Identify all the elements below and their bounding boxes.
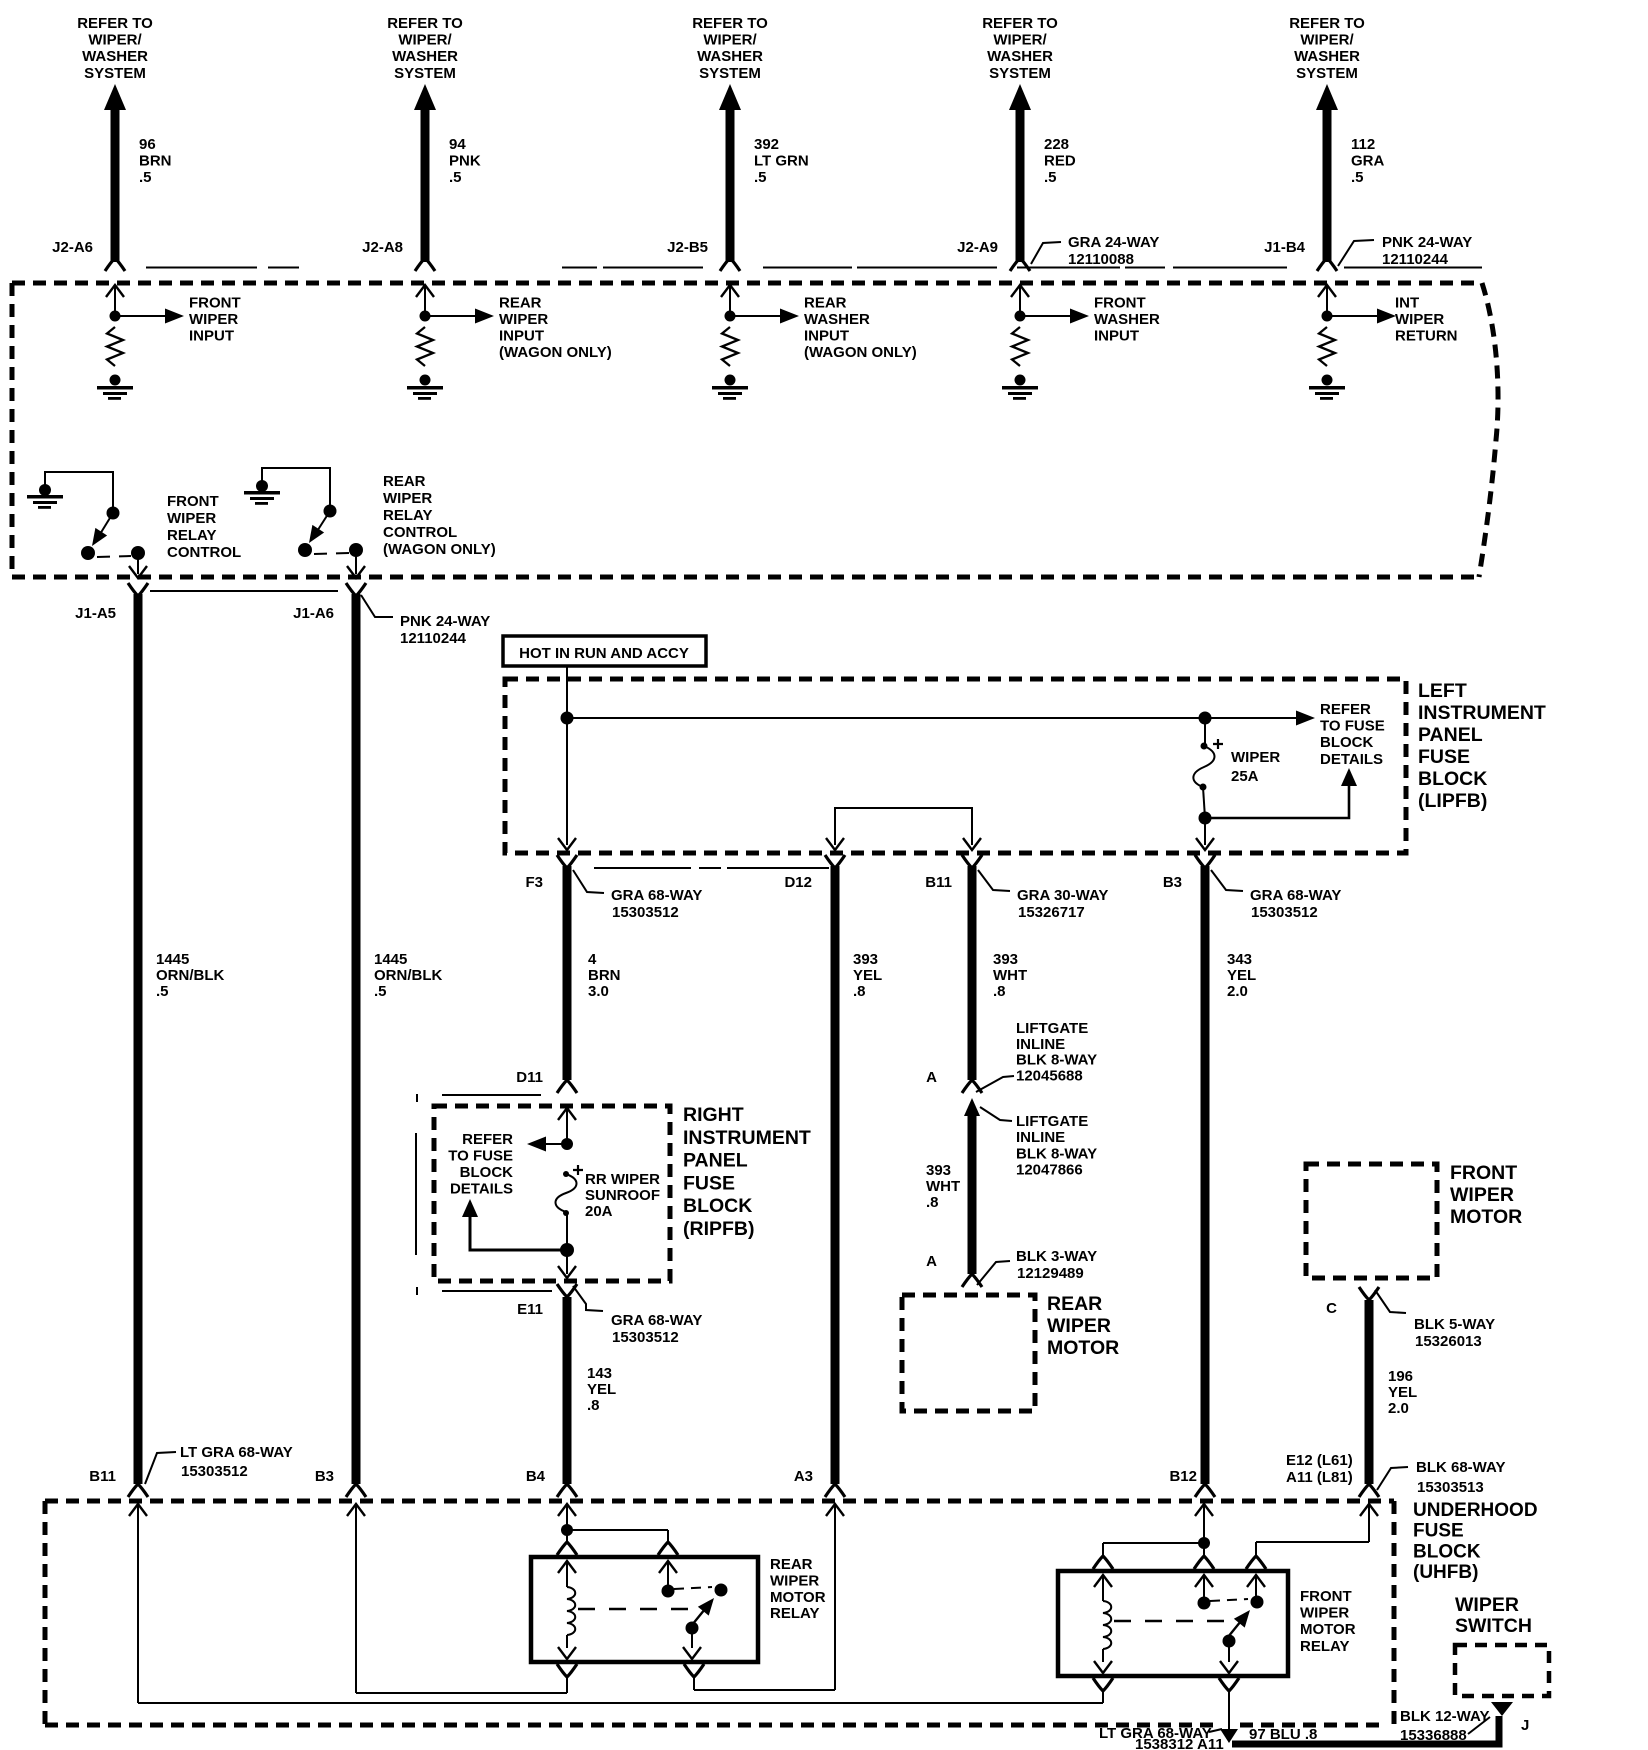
svg-text:SYSTEM: SYSTEM [84,65,146,82]
svg-text:BLOCK: BLOCK [1413,1541,1481,1562]
svg-text:LT GRN: LT GRN [754,153,809,170]
svg-text:4: 4 [588,951,597,968]
svg-text:PNK 24-WAY: PNK 24-WAY [1382,234,1472,251]
svg-text:2.0: 2.0 [1227,983,1248,1000]
svg-text:WIPER/: WIPER/ [993,32,1047,49]
svg-text:WHT: WHT [926,1178,960,1195]
svg-text:.8: .8 [926,1194,939,1211]
svg-text:INPUT: INPUT [189,328,234,345]
svg-text:A3: A3 [794,1468,813,1485]
svg-text:LT GRA 68-WAY: LT GRA 68-WAY [180,1444,293,1461]
svg-text:FRONT: FRONT [167,493,219,510]
svg-text:J1-B4: J1-B4 [1264,239,1306,256]
svg-text:WASHER: WASHER [82,48,148,65]
svg-text:INSTRUMENT: INSTRUMENT [683,1127,811,1149]
svg-text:12110244: 12110244 [1382,251,1449,268]
svg-text:WASHER: WASHER [804,311,870,328]
svg-text:INPUT: INPUT [804,328,849,345]
svg-text:25A: 25A [1231,768,1259,785]
svg-text:INLINE: INLINE [1016,1129,1065,1146]
svg-text:J2-B5: J2-B5 [667,239,708,256]
svg-text:WIPER: WIPER [1455,1594,1519,1616]
svg-text:393: 393 [993,951,1018,968]
svg-text:393: 393 [853,951,878,968]
svg-text:.5: .5 [374,983,387,1000]
svg-text:12047866: 12047866 [1016,1162,1083,1179]
svg-text:MOTOR: MOTOR [1450,1206,1522,1228]
svg-text:393: 393 [926,1162,951,1179]
svg-text:.8: .8 [993,983,1006,1000]
svg-text:B11: B11 [925,874,952,891]
svg-text:REFER TO: REFER TO [982,15,1058,32]
svg-text:MOTOR: MOTOR [1300,1621,1356,1638]
svg-text:GRA 30-WAY: GRA 30-WAY [1017,887,1108,904]
svg-text:BRN: BRN [588,967,621,984]
svg-text:MOTOR: MOTOR [1047,1337,1119,1359]
svg-text:WIPER: WIPER [383,490,432,507]
svg-text:(WAGON ONLY): (WAGON ONLY) [804,344,917,361]
svg-text:96: 96 [139,136,156,153]
svg-text:WIPER/: WIPER/ [703,32,757,49]
svg-text:FRONT: FRONT [1094,295,1146,312]
svg-text:228: 228 [1044,136,1069,153]
svg-text:SYSTEM: SYSTEM [989,65,1051,82]
svg-text:FRONT: FRONT [189,295,241,312]
svg-text:REAR: REAR [1047,1293,1102,1315]
svg-text:(UHFB): (UHFB) [1413,1562,1478,1583]
svg-text:WIPER: WIPER [1300,1605,1349,1622]
svg-text:RR WIPER: RR WIPER [585,1171,660,1188]
svg-text:B4: B4 [526,1468,546,1485]
svg-text:TO FUSE: TO FUSE [1320,718,1385,735]
svg-text:BLK 5-WAY: BLK 5-WAY [1414,1316,1495,1333]
svg-text:WIPER/: WIPER/ [88,32,142,49]
svg-text:WASHER: WASHER [1094,311,1160,328]
svg-text:(WAGON ONLY): (WAGON ONLY) [383,541,496,558]
svg-text:INPUT: INPUT [499,328,544,345]
svg-text:WASHER: WASHER [987,48,1053,65]
svg-text:INT: INT [1395,295,1419,312]
svg-text:.5: .5 [449,169,462,186]
svg-text:REFER TO: REFER TO [387,15,463,32]
svg-text:BLK 3-WAY: BLK 3-WAY [1016,1248,1097,1265]
svg-text:15303513: 15303513 [1417,1479,1484,1496]
svg-text:A: A [926,1069,937,1086]
svg-text:RELAY: RELAY [770,1605,819,1622]
svg-text:.5: .5 [156,983,169,1000]
svg-text:J2-A6: J2-A6 [52,239,93,256]
svg-text:REFER TO: REFER TO [1289,15,1365,32]
svg-text:BLOCK: BLOCK [460,1164,513,1181]
svg-text:J1-A5: J1-A5 [75,605,116,622]
svg-text:WIPER: WIPER [1231,749,1280,766]
svg-text:PANEL: PANEL [683,1150,748,1172]
svg-text:REAR: REAR [770,1556,813,1573]
svg-text:YEL: YEL [853,967,882,984]
svg-text:LIFTGATE: LIFTGATE [1016,1020,1088,1037]
svg-text:D12: D12 [784,874,812,891]
svg-text:INSTRUMENT: INSTRUMENT [1418,702,1546,724]
svg-text:B11: B11 [89,1468,116,1485]
svg-text:J1-A6: J1-A6 [293,605,334,622]
svg-text:BLOCK: BLOCK [1320,734,1373,751]
svg-text:BLOCK: BLOCK [1418,768,1487,790]
svg-text:3.0: 3.0 [588,983,609,1000]
svg-text:A11 (L81): A11 (L81) [1286,1469,1353,1486]
svg-text:FRONT: FRONT [1300,1588,1352,1605]
svg-text:REAR: REAR [383,473,426,490]
svg-text:343: 343 [1227,951,1252,968]
svg-text:YEL: YEL [1388,1384,1417,1401]
svg-text:HOT IN RUN AND ACCY: HOT IN RUN AND ACCY [519,645,689,662]
svg-text:15326717: 15326717 [1018,904,1085,921]
svg-text:FUSE: FUSE [1418,746,1470,768]
svg-text:J2-A9: J2-A9 [957,239,998,256]
svg-text:C: C [1326,1300,1337,1317]
svg-text:(RIPFB): (RIPFB) [683,1218,755,1240]
svg-text:392: 392 [754,136,779,153]
svg-text:WIPER/: WIPER/ [398,32,452,49]
svg-text:B3: B3 [315,1468,334,1485]
svg-text:BLOCK: BLOCK [683,1195,752,1217]
svg-text:112: 112 [1351,136,1375,153]
svg-text:20A: 20A [585,1203,613,1220]
svg-text:94: 94 [449,136,466,153]
svg-text:BLK 8-WAY: BLK 8-WAY [1016,1052,1097,1069]
svg-text:WASHER: WASHER [1294,48,1360,65]
svg-text:YEL: YEL [1227,967,1256,984]
svg-text:WIPER: WIPER [1450,1184,1514,1206]
svg-text:FRONT: FRONT [1450,1162,1517,1184]
svg-text:15303512: 15303512 [181,1463,248,1480]
svg-text:A: A [926,1253,937,1270]
svg-text:SYSTEM: SYSTEM [394,65,456,82]
svg-text:YEL: YEL [587,1381,616,1398]
svg-text:GRA: GRA [1351,153,1385,170]
svg-text:15303512: 15303512 [1251,904,1318,921]
svg-text:E11: E11 [517,1301,543,1318]
svg-text:.8: .8 [587,1397,600,1414]
svg-text:.8: .8 [853,983,866,1000]
svg-text:RIGHT: RIGHT [683,1104,744,1126]
svg-text:SUNROOF: SUNROOF [585,1187,660,1204]
svg-text:INLINE: INLINE [1016,1036,1065,1053]
svg-text:(WAGON ONLY): (WAGON ONLY) [499,344,612,361]
svg-text:WIPER: WIPER [499,311,548,328]
svg-text:REAR: REAR [499,295,542,312]
svg-text:143: 143 [587,1365,612,1382]
svg-text:12045688: 12045688 [1016,1067,1083,1084]
svg-text:FUSE: FUSE [1413,1521,1464,1542]
svg-text:SYSTEM: SYSTEM [699,65,761,82]
svg-text:WIPER: WIPER [167,510,216,527]
svg-text:RED: RED [1044,153,1076,170]
svg-text:MOTOR: MOTOR [770,1589,826,1606]
svg-text:.5: .5 [139,169,152,186]
svg-text:12110244: 12110244 [400,630,467,647]
svg-text:15336888: 15336888 [1400,1727,1467,1744]
svg-text:CONTROL: CONTROL [383,524,457,541]
svg-text:BRN: BRN [139,153,172,170]
svg-text:15303512: 15303512 [612,904,679,921]
svg-text:1445: 1445 [374,951,407,968]
svg-text:BLK 12-WAY: BLK 12-WAY [1400,1708,1489,1725]
svg-text:WIPER: WIPER [1395,311,1444,328]
svg-text:1538312 A11: 1538312 A11 [1135,1736,1224,1750]
svg-text:(LIPFB): (LIPFB) [1418,790,1487,812]
svg-text:BLK 8-WAY: BLK 8-WAY [1016,1145,1097,1162]
svg-text:.5: .5 [1351,169,1364,186]
svg-text:RELAY: RELAY [1300,1638,1349,1655]
svg-text:SWITCH: SWITCH [1455,1615,1532,1637]
svg-text:UNDERHOOD: UNDERHOOD [1413,1500,1538,1521]
svg-text:12110088: 12110088 [1068,251,1134,268]
svg-text:DETAILS: DETAILS [1320,751,1383,768]
svg-text:B12: B12 [1169,1468,1197,1485]
svg-text:LIFTGATE: LIFTGATE [1016,1113,1088,1130]
svg-text:RELAY: RELAY [383,507,432,524]
svg-text:GRA 68-WAY: GRA 68-WAY [611,887,702,904]
svg-text:LEFT: LEFT [1418,680,1467,702]
svg-text:PANEL: PANEL [1418,724,1483,746]
svg-text:REAR: REAR [804,295,847,312]
svg-text:REFER: REFER [1320,701,1371,718]
svg-text:TO FUSE: TO FUSE [448,1148,513,1165]
svg-text:D11: D11 [516,1069,543,1086]
svg-text:WASHER: WASHER [697,48,763,65]
svg-text:FUSE: FUSE [683,1172,735,1194]
svg-text:PNK: PNK [449,153,481,170]
svg-text:DETAILS: DETAILS [450,1181,513,1198]
svg-text:12129489: 12129489 [1017,1265,1084,1282]
svg-text:97 BLU .8: 97 BLU .8 [1249,1726,1317,1743]
svg-text:B3: B3 [1163,874,1182,891]
svg-text:REFER TO: REFER TO [77,15,153,32]
svg-text:J2-A8: J2-A8 [362,239,403,256]
svg-text:RETURN: RETURN [1395,328,1458,345]
svg-text:.5: .5 [754,169,767,186]
svg-text:F3: F3 [525,874,543,891]
svg-text:WIPER/: WIPER/ [1300,32,1354,49]
svg-text:196: 196 [1388,1368,1413,1385]
svg-text:RELAY: RELAY [167,527,216,544]
svg-text:WIPER: WIPER [1047,1315,1111,1337]
svg-text:J: J [1521,1717,1529,1734]
svg-text:GRA 24-WAY: GRA 24-WAY [1068,234,1159,251]
svg-text:1445: 1445 [156,951,189,968]
svg-text:.5: .5 [1044,169,1057,186]
svg-text:2.0: 2.0 [1388,1400,1409,1417]
svg-text:INPUT: INPUT [1094,328,1139,345]
svg-text:GRA 68-WAY: GRA 68-WAY [611,1312,702,1329]
svg-text:REFER: REFER [462,1131,513,1148]
svg-text:ORN/BLK: ORN/BLK [156,967,224,984]
svg-text:15303512: 15303512 [612,1329,679,1346]
svg-text:PNK 24-WAY: PNK 24-WAY [400,613,490,630]
svg-text:E12 (L61): E12 (L61) [1286,1452,1353,1469]
svg-text:WHT: WHT [993,967,1027,984]
svg-text:WIPER: WIPER [189,311,238,328]
svg-text:BLK 68-WAY: BLK 68-WAY [1416,1459,1505,1476]
svg-text:GRA 68-WAY: GRA 68-WAY [1250,887,1341,904]
svg-text:SYSTEM: SYSTEM [1296,65,1358,82]
svg-text:REFER TO: REFER TO [692,15,768,32]
svg-text:CONTROL: CONTROL [167,544,241,561]
svg-text:15326013: 15326013 [1415,1333,1482,1350]
svg-text:ORN/BLK: ORN/BLK [374,967,442,984]
svg-text:WIPER: WIPER [770,1572,819,1589]
svg-text:WASHER: WASHER [392,48,458,65]
